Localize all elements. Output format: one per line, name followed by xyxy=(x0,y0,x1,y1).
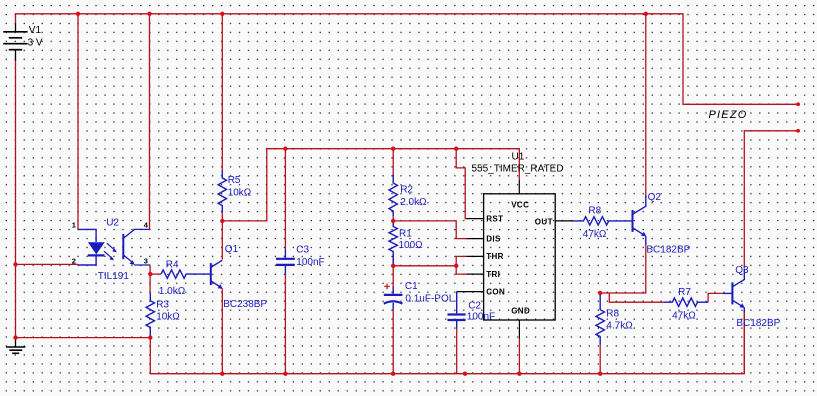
resistor R5 xyxy=(218,171,226,213)
wire Q2 collector to top rail xyxy=(645,14,647,196)
wire bottom ground rail xyxy=(150,310,744,374)
resistor R4 xyxy=(161,270,186,278)
capacitor C3 xyxy=(276,250,295,275)
svg-text:2.0kΩ: 2.0kΩ xyxy=(400,197,427,208)
svg-text:10kΩ: 10kΩ xyxy=(228,187,252,198)
wire C3 bottom lead xyxy=(284,274,286,374)
wire THR TRI tie xyxy=(456,256,467,274)
R4 right lead to Q1 base xyxy=(186,273,211,275)
resistor R1 xyxy=(389,221,397,266)
svg-text:DIS: DIS xyxy=(486,234,501,243)
svg-text:3 V: 3 V xyxy=(28,37,43,48)
wire C1 bottom lead xyxy=(392,309,394,374)
battery V1 xyxy=(3,23,27,60)
svg-text:R2: R2 xyxy=(400,184,413,195)
U2 light arrowheads xyxy=(112,248,117,252)
svg-text:U1: U1 xyxy=(512,151,525,162)
wire U2 pin 3 down to R4/R3 node xyxy=(149,265,151,293)
capacitor C1 polarized xyxy=(384,287,403,310)
terminal dot PIEZO 1 xyxy=(796,102,800,106)
wire U2 pin 2 to battery negative xyxy=(16,263,79,265)
svg-text:BC182BP: BC182BP xyxy=(736,318,780,329)
optocoupler U2 TIL191 xyxy=(78,229,150,265)
wire R1 bottom C1 top node xyxy=(392,255,394,287)
op 555 timer U1 box xyxy=(484,194,556,320)
svg-text:TIL191: TIL191 xyxy=(98,271,130,282)
svg-text:2: 2 xyxy=(72,256,76,265)
wire R2 bottom / R1 node to DIS jog xyxy=(393,216,467,239)
svg-text:1.0kΩ: 1.0kΩ xyxy=(159,286,186,297)
terminal dot PIEZO 2 xyxy=(796,129,800,133)
resistor R8 4.7k xyxy=(596,293,604,345)
svg-text:THR: THR xyxy=(486,252,504,261)
capacitor C2 xyxy=(448,292,466,329)
svg-text:R1: R1 xyxy=(399,228,412,239)
svg-text:Q1: Q1 xyxy=(225,244,239,255)
svg-text:4.7kΩ: 4.7kΩ xyxy=(606,321,633,332)
svg-text:BC182BP: BC182BP xyxy=(646,244,690,255)
wire Q2 emitter to R8 node xyxy=(600,244,646,293)
wire PIEZO terminal 2 to Q3 collector xyxy=(744,131,798,268)
resistor R7 xyxy=(664,298,708,306)
svg-text:BC238BP: BC238BP xyxy=(223,299,267,310)
wire Q1 emitter to rail xyxy=(221,288,223,373)
wire node R4 left lead xyxy=(150,273,161,275)
svg-text:OUT: OUT xyxy=(535,217,553,226)
svg-text:R8: R8 xyxy=(606,309,619,320)
svg-text:R7: R7 xyxy=(678,287,691,298)
wire R8 node branch to R7 xyxy=(609,293,664,302)
svg-text:PIEZO: PIEZO xyxy=(709,109,748,121)
svg-text:47kΩ: 47kΩ xyxy=(672,310,696,321)
U2 emitter arrowhead xyxy=(130,260,135,265)
svg-text:10kΩ: 10kΩ xyxy=(156,311,180,322)
wire RST jog from VCC rail xyxy=(456,149,467,219)
svg-text:R8: R8 xyxy=(588,205,601,216)
wire top rail to PIEZO terminal 1 xyxy=(16,14,799,105)
svg-text:R3: R3 xyxy=(156,299,169,310)
svg-text:VCC: VCC xyxy=(511,200,529,209)
svg-text:3: 3 xyxy=(144,256,148,265)
wire Q1 collector node to VCC rail xyxy=(222,149,519,221)
svg-text:R5: R5 xyxy=(228,175,241,186)
resistor R3 xyxy=(146,293,154,338)
Q2 emitter arrowhead xyxy=(641,232,646,237)
resistor R2 xyxy=(389,175,397,217)
svg-text:1: 1 xyxy=(72,221,76,230)
svg-text:C3: C3 xyxy=(296,245,309,256)
wire Q1 collector xyxy=(221,221,223,260)
svg-text:100nF: 100nF xyxy=(467,312,495,323)
wire 555 GND to rail xyxy=(518,338,520,374)
Q1 emitter arrowhead xyxy=(218,284,223,289)
wire Q3 emitter lower lead red xyxy=(743,312,745,374)
svg-text:Q2: Q2 xyxy=(648,192,662,203)
wire R2 top lead xyxy=(392,149,394,175)
svg-text:RST: RST xyxy=(486,214,503,223)
svg-text:100Ω: 100Ω xyxy=(399,240,424,251)
svg-text:47kΩ: 47kΩ xyxy=(583,229,607,240)
svg-text:U2: U2 xyxy=(106,217,119,228)
wire R8 4.7k bottom to rail xyxy=(599,344,601,374)
svg-text:GND: GND xyxy=(511,307,530,316)
wire battery negative column xyxy=(15,60,17,338)
wire C2 bottom lead xyxy=(456,328,458,374)
wire THR node to R1/C1 node xyxy=(393,265,456,267)
transistor Q2 BC182BP xyxy=(633,196,646,245)
svg-text:C2: C2 xyxy=(468,301,481,312)
wire U2 pin 1 from top rail xyxy=(77,14,79,230)
svg-text:100nF: 100nF xyxy=(296,257,324,268)
svg-text:0.1uF-POL: 0.1uF-POL xyxy=(405,293,454,304)
transistor Q1 BC238BP xyxy=(211,260,223,287)
U2 LED triangle xyxy=(88,242,105,254)
svg-text:R4: R4 xyxy=(166,259,179,270)
wire C3 top lead xyxy=(284,149,286,250)
resistor R8 47k xyxy=(574,217,633,225)
svg-text:TRI: TRI xyxy=(486,270,500,279)
555 pin stubs xyxy=(457,181,574,339)
wire R5 from top rail xyxy=(221,14,223,171)
svg-text:555_TIMER_RATED: 555_TIMER_RATED xyxy=(472,163,564,174)
wire battery negative to R3 node xyxy=(16,337,151,339)
C1 plus sign xyxy=(384,284,390,290)
ground xyxy=(6,338,25,354)
svg-text:CON: CON xyxy=(486,287,505,296)
Q3 emitter arrowhead xyxy=(740,303,745,308)
svg-text:C1: C1 xyxy=(405,281,418,292)
wire U2 pin 4 from top rail xyxy=(149,14,151,230)
transistor Q3 BC182BP xyxy=(723,269,744,313)
wire R5 bottom to Q1 collector node xyxy=(221,212,223,221)
svg-text:Q3: Q3 xyxy=(735,265,749,276)
svg-text:V1: V1 xyxy=(29,25,42,36)
wire R7 right to Q3 base xyxy=(708,293,723,302)
